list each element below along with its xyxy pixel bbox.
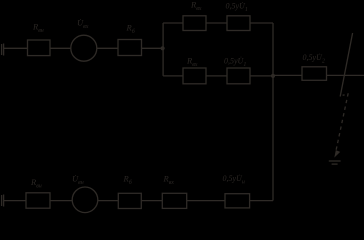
wire R5 to R6 [206, 75, 227, 77]
terminal X2 (bottom input) [2, 195, 4, 207]
wire R9 to R10 [141, 200, 162, 202]
source U1 (Uвх) [71, 35, 97, 61]
resistor R3 (Rвх upper) [183, 16, 206, 31]
wire long vertical node B to bottom rail [272, 76, 274, 201]
source box R6 (0,5уU1 lower) [227, 68, 250, 84]
node B (junction dot) [271, 74, 275, 78]
svg-text:Rвн: Rвн [32, 21, 44, 34]
svg-text:Rвн: Rвн [30, 177, 42, 190]
svg-text:Rб: Rб [123, 174, 133, 187]
wire R7 to right edge [327, 74, 364, 76]
source box R11 (0,5уU bottom) [225, 194, 250, 208]
wire lower branch left [163, 75, 183, 77]
wire right vertical of parallel section [272, 23, 274, 76]
svg-text:0,5уU̇2: 0,5уU̇2 [303, 53, 325, 65]
resistor R1 (Rвн top) [28, 40, 51, 56]
lightning arrow upper solid segment [340, 33, 352, 97]
ground [329, 161, 341, 164]
wire upper branch left [163, 22, 183, 24]
wire R11 to long vertical [250, 200, 273, 202]
wire X1 to R1 [4, 47, 28, 49]
resistor R9 (Rб bottom) [118, 193, 141, 208]
wire U2 to R9 [98, 200, 119, 202]
svg-text:Rвх: Rвх [186, 55, 198, 68]
wire R1 to U1 [50, 47, 71, 49]
wire U1 to R2 [97, 47, 118, 49]
lightning arrow dashed segment [336, 93, 348, 151]
svg-text:U̇вх: U̇вх [77, 18, 89, 31]
wire R8 to U2 [50, 200, 72, 202]
wire R10 to R11 [187, 200, 225, 202]
svg-text:0,5уU̇1: 0,5уU̇1 [226, 1, 248, 13]
lightning arrowhead [334, 150, 340, 158]
resistor R5 (Rвх lower) [183, 68, 206, 84]
svg-text:0,5уU̇1: 0,5уU̇1 [224, 56, 246, 68]
wire X2 to R8 [4, 200, 26, 202]
source U2 (Uвн bottom) [72, 187, 98, 213]
wire node B to R7 [273, 74, 302, 76]
wire left vertical of parallel section [162, 23, 164, 76]
source box R7 (0,5уU2 right) [302, 67, 327, 81]
wire upper branch right [250, 22, 273, 24]
resistor R8 (Rвн bottom) [26, 193, 50, 208]
wire lower branch right [250, 75, 273, 77]
svg-text:0,5уU̇н: 0,5уU̇н [223, 174, 245, 186]
svg-text:Rвх: Rвх [163, 174, 175, 187]
source box R4 (0,5уU1 upper) [227, 16, 250, 31]
lightning arrow jog dash [343, 94, 345, 96]
wire R2 to node A [142, 47, 164, 49]
terminal X1 (top input) [2, 44, 4, 56]
node A (junction dot) [161, 46, 165, 50]
svg-text:Rвх: Rвх [190, 0, 202, 12]
wire R3 to R4 [206, 22, 227, 24]
svg-text:U̇вн: U̇вн [72, 174, 84, 187]
svg-text:Rб: Rб [126, 23, 136, 35]
resistor R10 (Rвх bottom) [162, 193, 186, 208]
resistor R2 (Rб top) [118, 40, 142, 56]
